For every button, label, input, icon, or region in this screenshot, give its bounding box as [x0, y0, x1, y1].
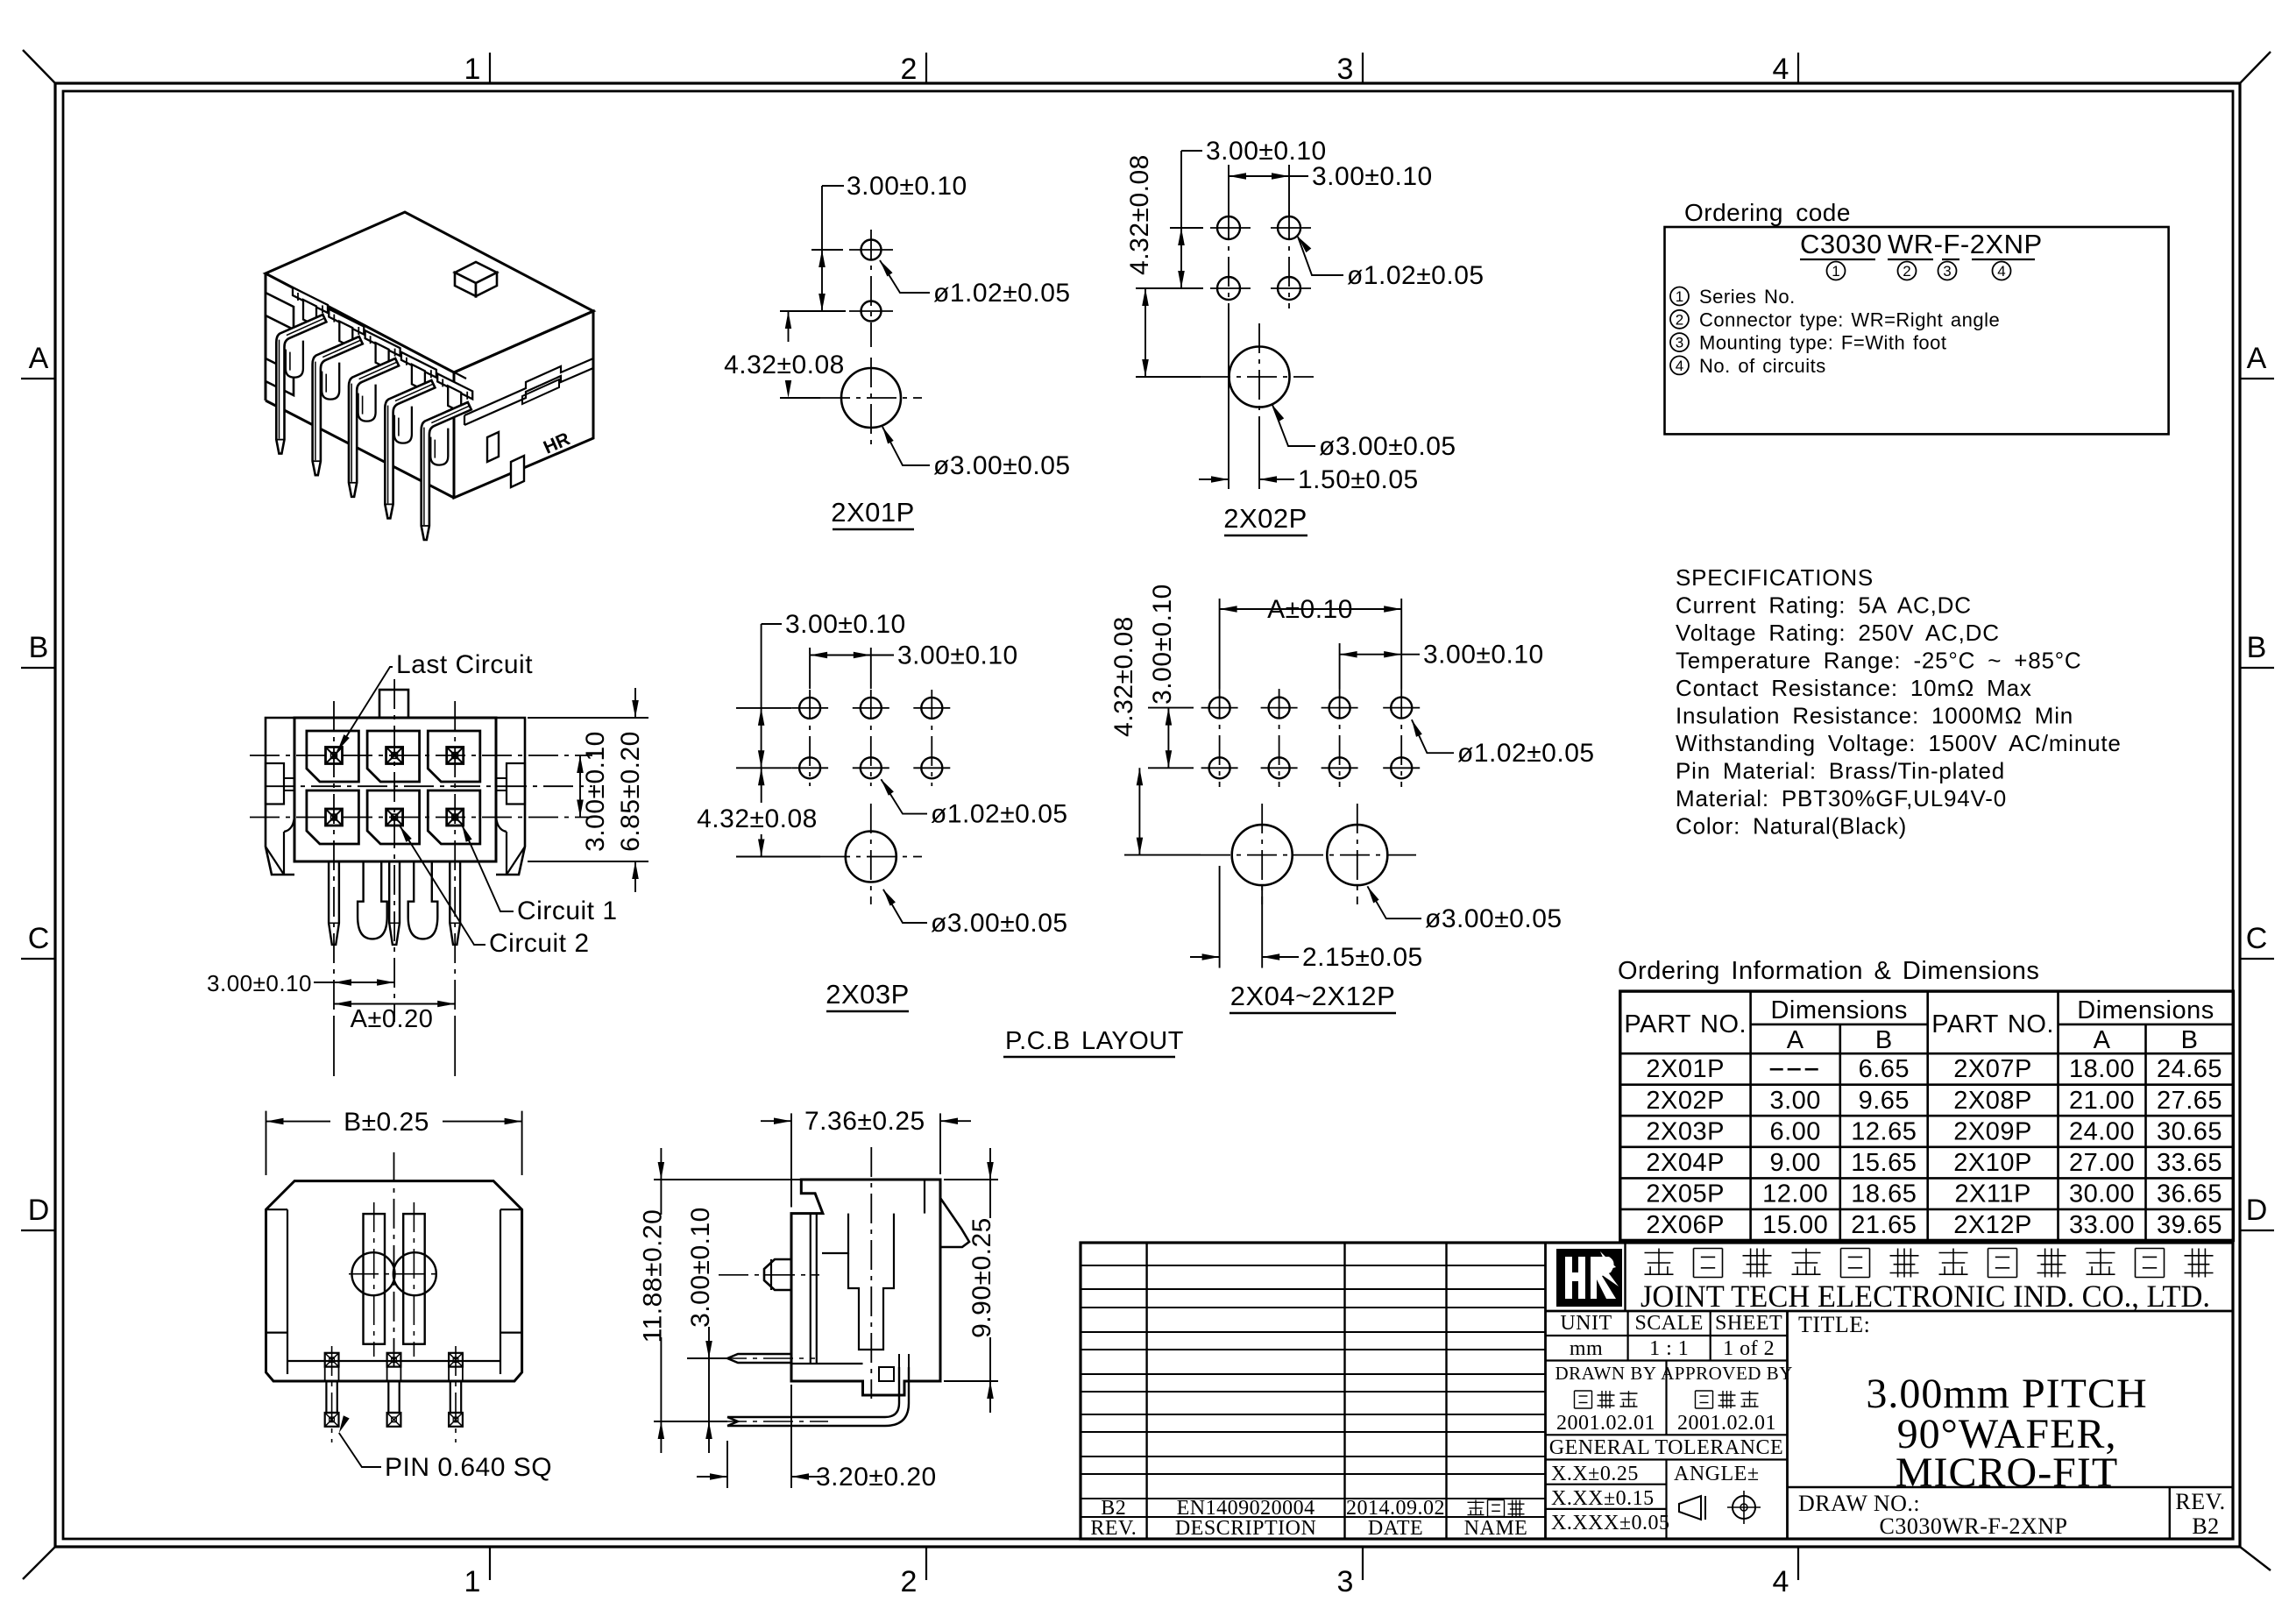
dim 3.00 leader (2X03P) — [761, 624, 762, 708]
svg-text:4: 4 — [1773, 1565, 1789, 1598]
svg-text:X.X±0.25: X.X±0.25 — [1551, 1463, 1639, 1485]
svg-text:3.00±0.10: 3.00±0.10 — [686, 1207, 715, 1328]
svg-text:C3030: C3030 — [1800, 229, 1882, 259]
leader dia 3.00 (2X02P) — [1272, 405, 1284, 422]
svg-text:2X06P: 2X06P — [1646, 1211, 1725, 1239]
hole (2X03P) — [799, 698, 820, 719]
P.C.B layout 2X02P — [1125, 137, 1485, 535]
svg-text:3.00±0.10: 3.00±0.10 — [1423, 641, 1544, 670]
company logo — [1624, 1243, 1626, 1311]
svg-text:NAME: NAME — [1464, 1517, 1528, 1540]
svg-text:3.00: 3.00 — [1769, 1087, 1820, 1115]
dim 7.36 — [790, 1113, 792, 1207]
svg-text:B2: B2 — [2192, 1513, 2219, 1539]
svg-text:GENERAL TOLERANCE: GENERAL TOLERANCE — [1549, 1436, 1783, 1459]
svg-text:D: D — [28, 1194, 50, 1227]
center lines bottom view — [373, 1202, 375, 1357]
svg-text:2X03P: 2X03P — [826, 979, 910, 1010]
side view body outline — [791, 1180, 940, 1395]
svg-text:Temperature Range: -25°C ~: Temperature Range: -25°C ~ +85°C — [1676, 648, 2082, 674]
svg-text:2001.02.01: 2001.02.01 — [1677, 1412, 1776, 1435]
svg-text:X.XX±0.15: X.XX±0.15 — [1551, 1487, 1655, 1510]
dim 11.88 — [654, 1179, 801, 1180]
svg-text:2: 2 — [1903, 263, 1910, 280]
row spacing dim (2X02P) — [1170, 227, 1203, 229]
leader dia 3.00 (2X03P) — [883, 889, 896, 906]
svg-text:21.65: 21.65 — [1851, 1211, 1917, 1239]
hole (2X02P) — [1217, 277, 1240, 300]
P.C.B layout 2X01P — [724, 172, 1070, 529]
svg-text:ø3.00±0.05: ø3.00±0.05 — [933, 451, 1071, 480]
svg-text:2.15±0.05: 2.15±0.05 — [1302, 943, 1423, 972]
hole (2X03P) — [799, 757, 820, 778]
svg-text:Series No.: Series No. — [1699, 286, 1796, 308]
svg-text:2X04~2X12P: 2X04~2X12P — [1230, 981, 1396, 1011]
svg-text:SCALE: SCALE — [1634, 1312, 1704, 1335]
company chinese name — [1645, 1252, 1674, 1254]
svg-text:MICRO-FIT: MICRO-FIT — [1896, 1449, 2118, 1496]
svg-text:2X04P: 2X04P — [1646, 1149, 1725, 1177]
svg-text:9.65: 9.65 — [1859, 1087, 1910, 1115]
hole (2X02P) — [1278, 216, 1300, 239]
dim 3.00 vertical (2X04) — [1148, 707, 1194, 709]
leader dia 1.02 (2X01P) — [880, 260, 893, 277]
leader dia 1.02 (2X03P) — [881, 779, 894, 796]
svg-text:DRAW NO.:: DRAW NO.: — [1798, 1491, 1920, 1516]
svg-text:UNIT: UNIT — [1560, 1312, 1612, 1335]
svg-text:B: B — [2181, 1026, 2199, 1054]
svg-text:30.00: 30.00 — [2069, 1180, 2135, 1208]
svg-text:Circuit 1: Circuit 1 — [517, 897, 618, 925]
svg-text:Dimensions: Dimensions — [2077, 996, 2215, 1024]
mating bump left — [764, 1259, 791, 1290]
svg-text:18.65: 18.65 — [1851, 1180, 1917, 1208]
svg-text:1 : 1: 1 : 1 — [1649, 1337, 1689, 1360]
svg-text:15.00: 15.00 — [1762, 1211, 1828, 1239]
svg-text:X.XXX±0.05: X.XXX±0.05 — [1551, 1512, 1670, 1534]
svg-text:Ordering code: Ordering code — [1684, 199, 1851, 226]
svg-text:DESCRIPTION: DESCRIPTION — [1175, 1517, 1317, 1540]
svg-text:A: A — [2094, 1026, 2111, 1054]
svg-text:Contact Resistance: 10mΩ Ma: Contact Resistance: 10mΩ Max — [1676, 675, 2032, 701]
svg-text:1: 1 — [1676, 288, 1683, 305]
svg-text:1: 1 — [464, 1565, 481, 1598]
dim 3.00 (side) — [687, 1357, 727, 1359]
svg-text:3.00±0.10: 3.00±0.10 — [1206, 137, 1327, 166]
svg-text:Current Rating: 5A AC,DC: Current Rating: 5A AC,DC — [1676, 592, 1972, 619]
ordering code box — [1665, 199, 2169, 434]
svg-text:C3030WR-F-2XNP: C3030WR-F-2XNP — [1879, 1513, 2067, 1539]
title block — [1081, 1243, 2233, 1540]
hole top (2X01P) — [861, 240, 882, 260]
svg-text:9.00: 9.00 — [1769, 1149, 1820, 1177]
left ear — [266, 718, 294, 875]
svg-text:SHEET: SHEET — [1715, 1312, 1782, 1335]
dim 3.00 vertical right (front) — [579, 755, 581, 818]
center lines (2X04-2X12P) — [1219, 689, 1221, 787]
svg-text:ø3.00±0.05: ø3.00±0.05 — [931, 909, 1068, 938]
dim B±0.25 — [266, 1111, 267, 1175]
body outline — [294, 718, 496, 861]
dim A±0.10 (2X04) — [1219, 599, 1221, 689]
hole bottom (2X01P) — [861, 301, 882, 322]
dim 4.32 (2X03P) — [736, 856, 820, 858]
svg-text:3.00±0.10: 3.00±0.10 — [785, 610, 906, 639]
svg-text:Connector type: WR=Right an: Connector type: WR=Right angle — [1699, 308, 2000, 330]
mounting feet — [358, 861, 387, 939]
projection symbols — [1679, 1496, 1701, 1520]
svg-text:REV.: REV. — [2175, 1489, 2225, 1514]
centre slots — [364, 1214, 386, 1344]
svg-text:A: A — [29, 342, 49, 375]
svg-text:4.32±0.08: 4.32±0.08 — [724, 351, 845, 379]
right ear — [496, 718, 525, 875]
svg-text:A: A — [1787, 1026, 1804, 1054]
svg-text:33.65: 33.65 — [2157, 1149, 2222, 1177]
svg-text:SPECIFICATIONS: SPECIFICATIONS — [1676, 564, 1874, 591]
inner cavity profile — [822, 1214, 848, 1253]
hole (2X03P) — [861, 698, 882, 719]
svg-text:APPROVED BY: APPROVED BY — [1661, 1363, 1793, 1384]
svg-text:DATE: DATE — [1368, 1517, 1423, 1540]
dim 4.32 (2X01P) — [780, 397, 820, 399]
svg-text:Pin Material: Brass/Tin-plat: Pin Material: Brass/Tin-plated — [1676, 758, 2005, 784]
dim 3.00 leader top (2X02P) — [1180, 151, 1182, 228]
drawn by approved by — [1665, 1361, 1667, 1435]
svg-text:Insulation Resistance: 1000M: Insulation Resistance: 1000MΩ Min — [1676, 703, 2073, 729]
svg-text:1 of 2: 1 of 2 — [1723, 1337, 1775, 1360]
svg-text:B: B — [1875, 1026, 1893, 1054]
circled number — [1827, 262, 1846, 280]
svg-text:9.90±0.25: 9.90±0.25 — [967, 1217, 996, 1338]
general tolerance values — [1665, 1460, 1667, 1540]
svg-text:2X12P: 2X12P — [1953, 1211, 2032, 1239]
hole (2X03P) — [921, 698, 942, 719]
mounting ear tabs (isometric) — [266, 293, 294, 330]
svg-text:A±0.10: A±0.10 — [1267, 595, 1353, 624]
svg-text:3.20±0.20: 3.20±0.20 — [816, 1463, 937, 1492]
bent terminal pins — [422, 402, 471, 540]
svg-text:2: 2 — [901, 1565, 918, 1598]
hole (2X04-2X12P) — [1269, 757, 1290, 778]
hole (2X02P) — [1278, 277, 1300, 300]
big hole (2X01P) — [841, 368, 901, 428]
hole (2X04-2X12P) — [1329, 757, 1350, 778]
circled number — [1938, 262, 1957, 280]
revision table — [1145, 1243, 1147, 1539]
svg-text:12.00: 12.00 — [1762, 1180, 1828, 1208]
svg-text:ø1.02±0.05: ø1.02±0.05 — [931, 800, 1068, 829]
circled number — [1993, 262, 2011, 280]
leader dia 1.02 (2X02P) — [1298, 237, 1311, 252]
dim 6.85 right (front) — [528, 717, 648, 719]
dim 1.50 (2X02P) — [1228, 308, 1229, 489]
svg-text:27.00: 27.00 — [2069, 1149, 2135, 1177]
pin squares and pins — [325, 1353, 339, 1367]
svg-text:3: 3 — [1337, 53, 1354, 86]
svg-text:2X02P: 2X02P — [1646, 1087, 1725, 1115]
svg-text:Material: PBT30%GF,UL94V-0: Material: PBT30%GF,UL94V-0 — [1676, 785, 2007, 811]
svg-text:6.65: 6.65 — [1859, 1055, 1910, 1083]
P.C.B layout 2X03P — [697, 610, 1067, 1011]
bent pin — [727, 1367, 899, 1417]
ordering code item — [1670, 287, 1689, 306]
ordering code item — [1670, 333, 1689, 351]
svg-text:PART NO.: PART NO. — [1931, 1010, 2054, 1038]
svg-text:B: B — [29, 631, 49, 664]
hole (2X04-2X12P) — [1209, 757, 1230, 778]
top peg — [379, 690, 408, 718]
svg-text:Dimensions: Dimensions — [1770, 996, 1908, 1024]
svg-text:3.00±0.10: 3.00±0.10 — [1312, 162, 1433, 191]
leader dia 3.00 (2X01P) — [882, 427, 894, 443]
svg-text:3.00±0.10: 3.00±0.10 — [847, 172, 967, 201]
svg-text:Circuit 2: Circuit 2 — [489, 929, 590, 958]
dim 2.15 (2X04) — [1219, 866, 1221, 968]
leader dia 3.00 (2X04) — [1367, 886, 1378, 903]
hole (2X03P) — [921, 757, 942, 778]
svg-text:18.00: 18.00 — [2069, 1055, 2135, 1083]
svg-text:21.00: 21.00 — [2069, 1087, 2135, 1115]
pins below body — [329, 861, 339, 945]
peg circles — [352, 1252, 395, 1295]
svg-text:WR-F-2XNP: WR-F-2XNP — [1888, 229, 2043, 259]
svg-text:REV.: REV. — [1090, 1517, 1137, 1540]
svg-text:P.C.B LAYOUT: P.C.B LAYOUT — [1005, 1027, 1184, 1055]
svg-text:4: 4 — [1676, 358, 1683, 374]
ordering code item — [1670, 356, 1689, 374]
svg-text:27.65: 27.65 — [2157, 1087, 2222, 1115]
svg-text:12.65: 12.65 — [1851, 1117, 1917, 1145]
svg-text:PIN 0.640 SQ: PIN 0.640 SQ — [385, 1453, 552, 1482]
svg-text:2X07P: 2X07P — [1953, 1055, 2032, 1083]
svg-text:Mounting type: F=With foot: Mounting type: F=With foot — [1699, 332, 1947, 354]
svg-text:2X05P: 2X05P — [1646, 1180, 1725, 1208]
hook flap — [940, 1198, 969, 1247]
terminal slot teeth — [293, 287, 328, 313]
dim 3.00 (2X04) — [1339, 643, 1341, 689]
big hole (2X02P) — [1229, 347, 1290, 408]
svg-text:1: 1 — [464, 53, 481, 86]
svg-text:2X02P: 2X02P — [1223, 503, 1307, 534]
hole (2X04-2X12P) — [1269, 698, 1290, 719]
hole (2X04-2X12P) — [1329, 698, 1350, 719]
svg-text:Ordering Information & Dime: Ordering Information & Dimensions — [1618, 957, 2039, 985]
svg-text:24.65: 24.65 — [2157, 1055, 2222, 1083]
svg-text:4.32±0.08: 4.32±0.08 — [697, 804, 818, 833]
svg-text:1: 1 — [1832, 263, 1839, 280]
ordering information table — [1618, 957, 2233, 1241]
svg-text:30.65: 30.65 — [2157, 1117, 2222, 1145]
svg-text:D: D — [2246, 1194, 2268, 1227]
dim A±0.20 (front) — [334, 1003, 455, 1005]
circled number — [1898, 262, 1917, 280]
svg-text:2X11P: 2X11P — [1954, 1180, 2030, 1208]
big hole (2X03P) — [846, 832, 896, 882]
dim 4.32 (2X04) — [1124, 854, 1201, 856]
svg-text:39.65: 39.65 — [2157, 1211, 2222, 1239]
hole (2X04-2X12P) — [1391, 698, 1412, 719]
svg-text:11.88±0.20: 11.88±0.20 — [638, 1209, 667, 1343]
svg-text:ø3.00±0.05: ø3.00±0.05 — [1319, 432, 1456, 461]
dim 9.90 — [944, 1179, 998, 1180]
svg-text:2X10P: 2X10P — [1953, 1149, 2032, 1177]
svg-text:3.00±0.10: 3.00±0.10 — [207, 970, 312, 996]
svg-text:DRAWN BY: DRAWN BY — [1555, 1363, 1656, 1384]
hole (2X04-2X12P) — [1209, 698, 1230, 719]
latch bump on top face — [455, 262, 497, 283]
svg-text:2X01P: 2X01P — [831, 497, 915, 528]
svg-text:4.32±0.08: 4.32±0.08 — [1109, 616, 1138, 737]
svg-text:15.65: 15.65 — [1851, 1149, 1917, 1177]
svg-text:4: 4 — [1997, 263, 2005, 280]
row dim (2X03P) — [736, 707, 791, 709]
svg-text:mm: mm — [1570, 1337, 1603, 1360]
front wall inner lines — [810, 1214, 811, 1364]
center lines (2X01P) — [870, 230, 872, 347]
dim 3.00 horizontal (2X03P) — [809, 648, 811, 689]
dim 3.00 vertical (2X01P) — [811, 249, 843, 251]
hole (2X03P) — [861, 757, 882, 778]
terminal collars — [286, 341, 303, 378]
bottom view outline — [266, 1181, 522, 1381]
hole (2X02P) — [1217, 216, 1240, 239]
svg-text:24.00: 24.00 — [2069, 1117, 2135, 1145]
svg-text:Last Circuit: Last Circuit — [396, 650, 533, 679]
unit scale sheet — [1626, 1311, 1628, 1361]
pin squares with X — [326, 748, 343, 764]
svg-text:B: B — [2247, 631, 2267, 664]
svg-text:1.50±0.05: 1.50±0.05 — [1298, 465, 1419, 494]
svg-text:PART NO.: PART NO. — [1624, 1010, 1747, 1038]
svg-text:2X01P: 2X01P — [1646, 1055, 1725, 1083]
front face lip — [464, 358, 593, 415]
svg-text:3: 3 — [1676, 335, 1683, 351]
P.C.B layout 2X04-2X12P — [1109, 584, 1595, 1013]
hole (2X04-2X12P) — [1391, 757, 1412, 778]
svg-text:Withstanding Voltage: 1500V: Withstanding Voltage: 1500V AC/minute — [1676, 730, 2122, 756]
svg-text:2: 2 — [901, 53, 918, 86]
front view of connector — [207, 650, 648, 1076]
center line side view — [870, 1147, 872, 1399]
small step at bottom middle — [879, 1367, 894, 1381]
dim 3.00 row pitch (front) — [334, 982, 394, 983]
svg-text:TITLE:: TITLE: — [1798, 1312, 1870, 1337]
svg-text:6.00: 6.00 — [1769, 1117, 1820, 1145]
svg-text:4: 4 — [1773, 53, 1789, 86]
svg-text:3.00±0.10: 3.00±0.10 — [897, 641, 1018, 670]
center lines (2X02P) — [1228, 210, 1229, 308]
svg-text:2X09P: 2X09P — [1953, 1117, 2032, 1145]
big holes (2X04-2X12P) — [1232, 825, 1293, 885]
isometric view of connector — [266, 212, 593, 540]
svg-text:4.32±0.08: 4.32±0.08 — [1125, 154, 1154, 275]
svg-text:2X08P: 2X08P — [1953, 1087, 2032, 1115]
svg-text:2001.02.01: 2001.02.01 — [1556, 1412, 1655, 1435]
svg-text:C: C — [2246, 922, 2268, 955]
dim 3.20 — [726, 1441, 728, 1488]
svg-text:3: 3 — [1943, 263, 1951, 280]
svg-text:ø1.02±0.05: ø1.02±0.05 — [1457, 739, 1595, 768]
center lines (2X03P) — [809, 690, 811, 786]
bottom pegs (isometric) — [511, 456, 524, 487]
leader dia 1.02 (2X04) — [1412, 719, 1422, 737]
svg-text:C: C — [28, 922, 50, 955]
svg-text:ø3.00±0.05: ø3.00±0.05 — [1425, 904, 1563, 933]
svg-text:ANGLE±: ANGLE± — [1674, 1463, 1760, 1485]
side view of connector — [638, 1107, 998, 1492]
latch area top right — [924, 1180, 925, 1214]
ordering code item — [1670, 310, 1689, 329]
svg-text:6.85±0.20: 6.85±0.20 — [616, 731, 645, 852]
dim 4.32 (2X02P) — [1136, 376, 1201, 378]
svg-text:No. of circuits: No. of circuits — [1699, 355, 1826, 377]
dim 3.00 horizontal (2X02P) — [1228, 165, 1229, 217]
svg-text:B±0.25: B±0.25 — [344, 1108, 429, 1137]
svg-text:A±0.20: A±0.20 — [351, 1005, 434, 1033]
center lines front view — [333, 701, 335, 1017]
svg-text:A: A — [2247, 342, 2267, 375]
svg-text:JOINT TECH ELECTRONIC IND. CO.: JOINT TECH ELECTRONIC IND. CO., LTD. — [1641, 1279, 2210, 1314]
svg-text:ø1.02±0.05: ø1.02±0.05 — [933, 279, 1071, 308]
svg-text:Color: Natural(Black): Color: Natural(Black) — [1676, 813, 1907, 840]
svg-text:ø1.02±0.05: ø1.02±0.05 — [1347, 261, 1485, 290]
svg-text:3.00±0.10: 3.00±0.10 — [1148, 584, 1177, 705]
svg-text:3: 3 — [1337, 1565, 1354, 1598]
specifications text — [1676, 564, 2122, 840]
cavities — [307, 731, 359, 782]
svg-text:33.00: 33.00 — [2069, 1211, 2135, 1239]
svg-text:Voltage Rating: 250V AC,DC: Voltage Rating: 250V AC,DC — [1676, 620, 2000, 646]
bottom view of connector — [266, 1108, 553, 1482]
svg-text:36.65: 36.65 — [2157, 1180, 2222, 1208]
svg-text:2X03P: 2X03P — [1646, 1117, 1725, 1145]
upper pin — [727, 1354, 791, 1363]
svg-text:2: 2 — [1676, 311, 1683, 328]
svg-text:3.00±0.10: 3.00±0.10 — [581, 731, 610, 852]
label PIN 0.640 SQ — [339, 1415, 350, 1433]
svg-text:7.36±0.25: 7.36±0.25 — [804, 1107, 925, 1136]
